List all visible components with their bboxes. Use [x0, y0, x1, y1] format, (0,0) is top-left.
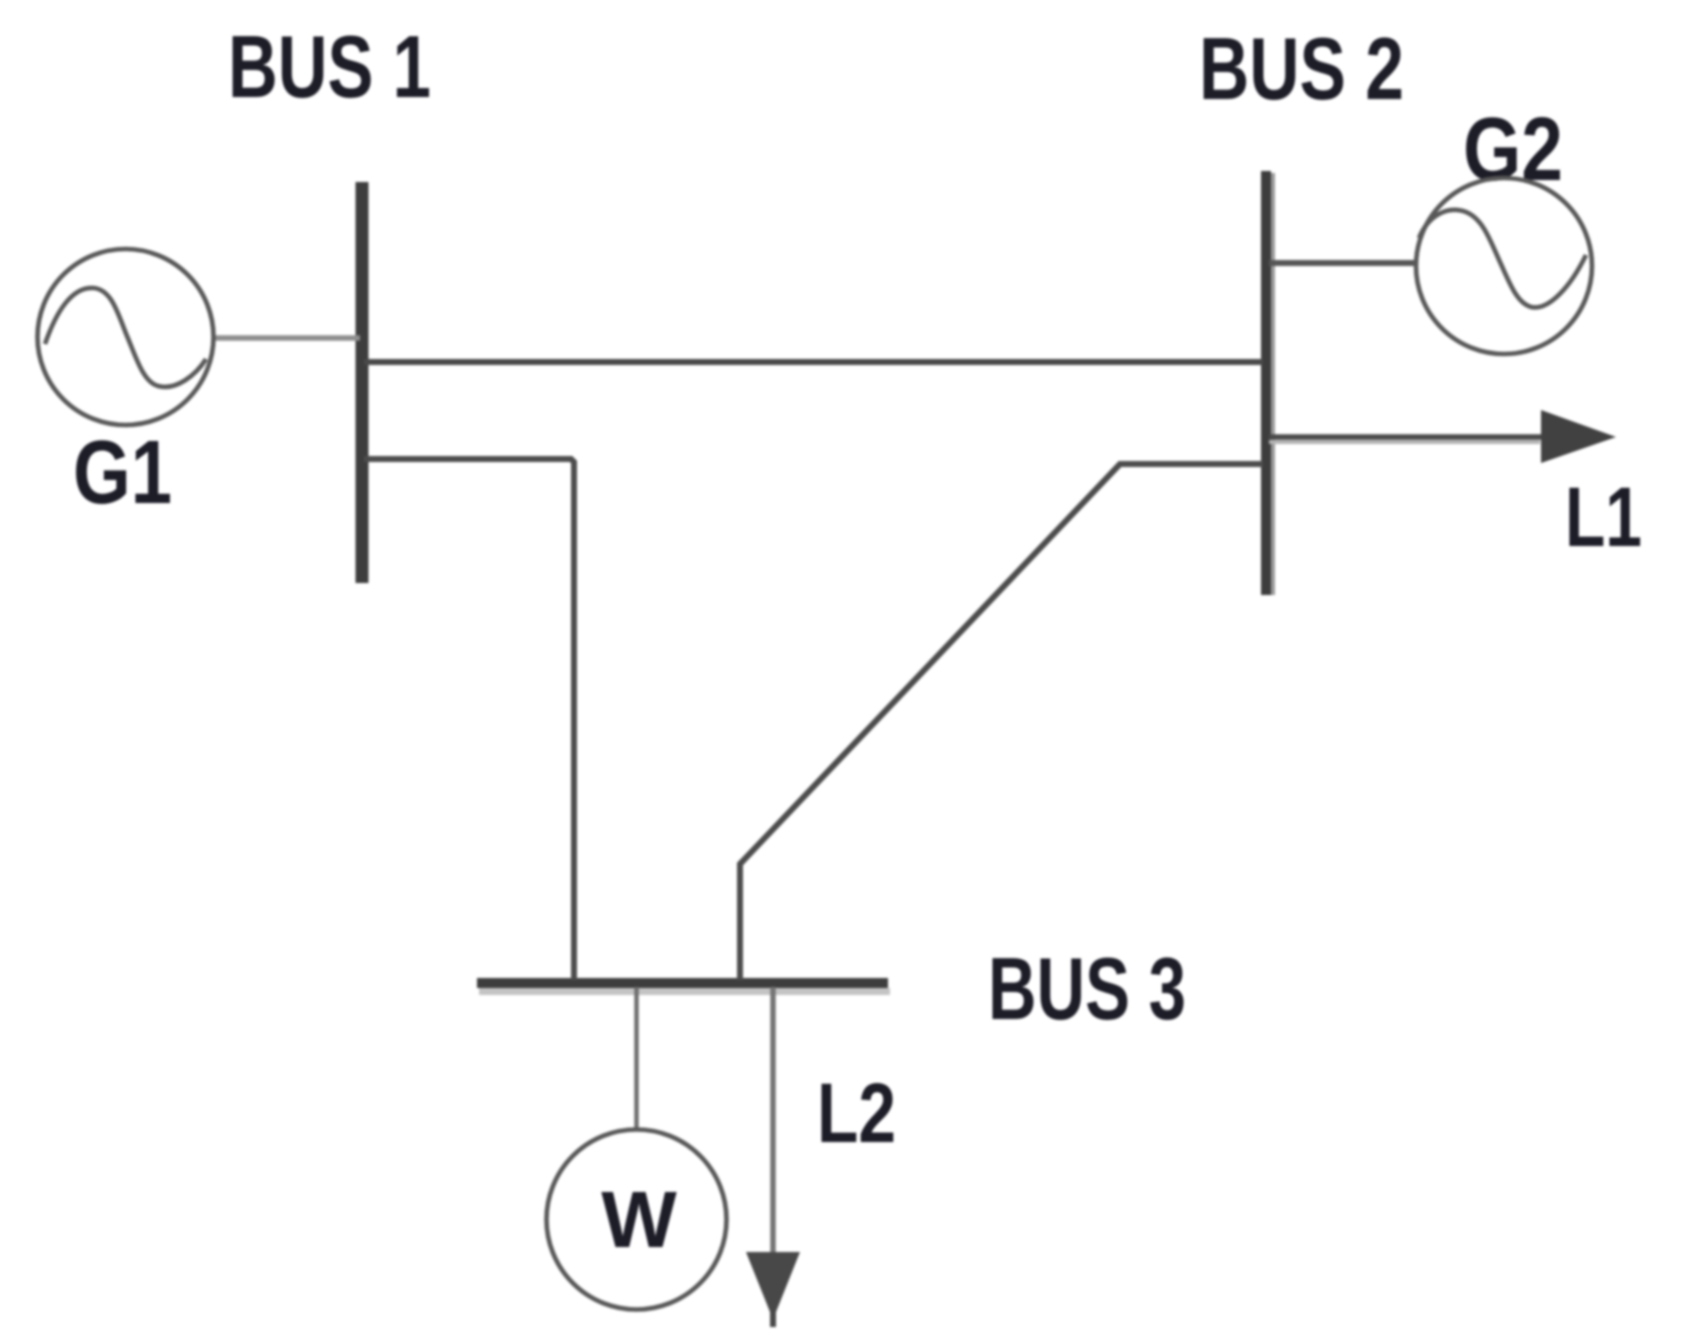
generator G2 (AC source circle with sine)	[1416, 178, 1592, 354]
wire line BUS 1 to BUS 2	[364, 359, 1263, 365]
svg-text:G1: G1	[73, 423, 172, 523]
wire G1 to BUS 1	[214, 335, 360, 341]
svg-text:BUS 1: BUS 1	[228, 17, 431, 116]
svg-text:L1: L1	[1565, 470, 1642, 564]
wire BUS 3 to wind generator W	[634, 987, 639, 1131]
busbar BUS 2	[1266, 171, 1273, 595]
busbar BUS 3	[477, 983, 890, 992]
svg-text:BUS 3: BUS 3	[988, 939, 1186, 1038]
wire line BUS 2 to BUS 3	[740, 464, 1263, 980]
wind generator W (circle with W)	[547, 1130, 727, 1310]
load L1 arrow	[1269, 410, 1616, 463]
svg-text:W: W	[601, 1175, 677, 1264]
wire line BUS 1 to BUS 3	[364, 459, 574, 980]
svg-text:L2: L2	[817, 1066, 896, 1160]
load L2 arrow	[746, 987, 800, 1327]
svg-text:BUS 2: BUS 2	[1199, 19, 1404, 118]
busbar BUS 1	[356, 182, 369, 583]
svg-text:G2: G2	[1463, 100, 1563, 200]
wire G2 to BUS 2	[1269, 260, 1416, 266]
generator G1 (AC source circle with sine)	[38, 249, 214, 425]
